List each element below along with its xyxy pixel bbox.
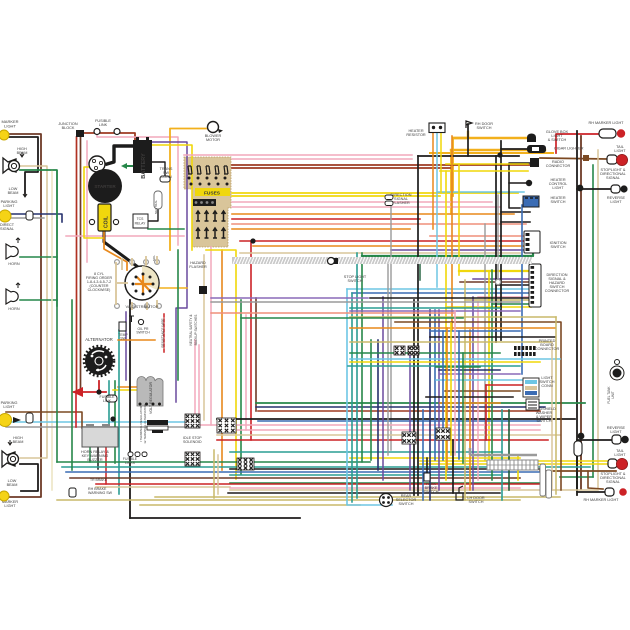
svg-text:LIGHT: LIGHT xyxy=(4,124,16,129)
svg-text:BACKUP SWITCHES: BACKUP SWITCHES xyxy=(194,315,198,346)
svg-text:LINKS: LINKS xyxy=(125,461,136,465)
svg-text:FLASHER: FLASHER xyxy=(392,201,410,205)
svg-text:CIGAR LIGHTER: CIGAR LIGHTER xyxy=(554,147,584,151)
svg-text:RESISTANCE WIRE: RESISTANCE WIRE xyxy=(161,318,165,347)
svg-text:CONNECTOR: CONNECTOR xyxy=(546,164,571,168)
svg-text:CLOCKWISE): CLOCKWISE) xyxy=(88,288,111,292)
svg-text:SWITCH: SWITCH xyxy=(136,331,150,335)
svg-text:RH MARKER LIGHT: RH MARKER LIGHT xyxy=(583,498,619,502)
svg-text:HORN: HORN xyxy=(8,262,19,266)
svg-text:TR BRAKE: TR BRAKE xyxy=(90,478,108,482)
svg-text:SWITCH: SWITCH xyxy=(537,419,552,423)
svg-text:BUZZER: BUZZER xyxy=(87,458,102,462)
svg-text:SOLENOID: SOLENOID xyxy=(183,440,202,444)
svg-text:LINK: LINK xyxy=(103,399,112,403)
svg-text:WARNING SW: WARNING SW xyxy=(88,491,113,495)
svg-text:LIGHT: LIGHT xyxy=(3,405,15,409)
svg-text:NEUTRAL SAFETY &: NEUTRAL SAFETY & xyxy=(189,314,193,346)
svg-text:& SWITCH: & SWITCH xyxy=(548,138,567,142)
svg-text:HORN: HORN xyxy=(8,307,19,311)
svg-text:SW: SW xyxy=(120,337,126,341)
svg-text:FUSES: FUSES xyxy=(204,191,221,197)
svg-text:RESISTOR: RESISTOR xyxy=(406,133,426,137)
svg-text:TCS: TCS xyxy=(137,217,145,221)
svg-text:LIGHT: LIGHT xyxy=(614,453,626,457)
svg-text:LIGHT: LIGHT xyxy=(552,186,564,190)
svg-text:SIGNAL: SIGNAL xyxy=(0,227,14,231)
svg-text:SWITCH: SWITCH xyxy=(477,126,492,130)
svg-text:NEUTRAL: NEUTRAL xyxy=(154,200,158,214)
svg-text:BEAM: BEAM xyxy=(8,191,19,195)
svg-text:BEAM: BEAM xyxy=(7,483,18,487)
svg-text:BATTERY: BATTERY xyxy=(141,153,147,179)
svg-text:LIGHT: LIGHT xyxy=(3,204,15,208)
svg-text:RELAY: RELAY xyxy=(135,222,147,226)
svg-text:SWITCH: SWITCH xyxy=(551,200,566,204)
svg-text:LIGHT: LIGHT xyxy=(614,149,626,153)
svg-text:LIGHT: LIGHT xyxy=(610,200,622,204)
svg-text:UNIT: UNIT xyxy=(611,391,615,398)
svg-text:BEAM: BEAM xyxy=(13,440,24,444)
svg-text:ALTERNATOR: ALTERNATOR xyxy=(85,337,112,342)
svg-text:SWITCH: SWITCH xyxy=(424,490,439,494)
svg-text:SWITCH: SWITCH xyxy=(399,502,414,506)
svg-text:SOL: SOL xyxy=(152,255,156,261)
svg-text:SIGNAL: SIGNAL xyxy=(606,176,620,180)
svg-text:SIGNAL: SIGNAL xyxy=(606,480,620,484)
svg-text:LIGHT: LIGHT xyxy=(4,504,16,508)
svg-text:LIGHT: LIGHT xyxy=(610,430,622,434)
svg-text:BLOCK: BLOCK xyxy=(62,126,75,130)
svg-text:LINK: LINK xyxy=(99,123,108,127)
svg-text:RH MARKER LIGHT: RH MARKER LIGHT xyxy=(588,121,624,125)
svg-text:V8 DISTRIBUTOR: V8 DISTRIBUTOR xyxy=(125,304,158,309)
svg-text:COIL: COIL xyxy=(104,216,110,228)
svg-text:SWITCH: SWITCH xyxy=(551,245,566,249)
svg-text:12 TERMINAL ALTERNATOR: 12 TERMINAL ALTERNATOR xyxy=(143,403,147,443)
svg-text:CONNECTOR: CONNECTOR xyxy=(545,289,570,293)
svg-text:SWITCH: SWITCH xyxy=(469,500,484,504)
svg-text:VOLT REGULATOR: VOLT REGULATOR xyxy=(149,382,153,414)
svg-text:MOTOR: MOTOR xyxy=(206,138,220,142)
svg-text:FLASHER: FLASHER xyxy=(189,265,207,269)
svg-text:CONN: CONN xyxy=(541,384,552,388)
svg-text:CONN: CONN xyxy=(160,175,171,179)
svg-text:CONNECTOR: CONNECTOR xyxy=(535,347,560,351)
svg-text:STARTER: STARTER xyxy=(94,184,116,189)
svg-text:SWITCH: SWITCH xyxy=(348,279,363,283)
